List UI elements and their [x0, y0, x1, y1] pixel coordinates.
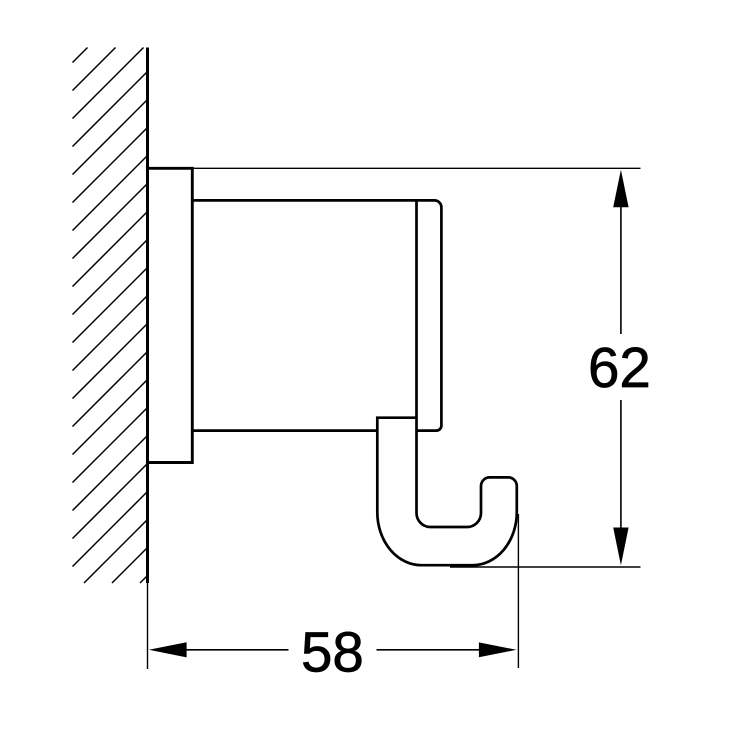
svg-text:58: 58: [301, 620, 364, 683]
svg-text:62: 62: [588, 336, 651, 399]
